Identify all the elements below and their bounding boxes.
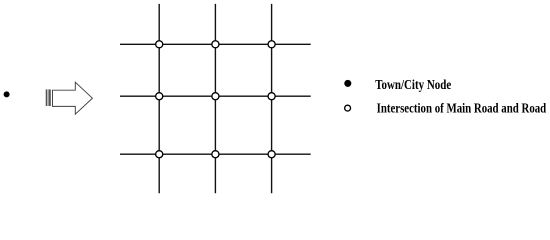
node: intersection row2 col2 xyxy=(212,93,219,100)
node: intersection row1 col3 xyxy=(268,41,275,48)
node: intersection row1 col1 xyxy=(156,41,163,48)
node: intersection row3 col2 xyxy=(212,151,219,158)
node: intersection row3 col3 xyxy=(268,151,275,158)
striped right arrow symbol xyxy=(46,82,93,114)
wire: vertical road 2 xyxy=(214,4,216,193)
node: intersection row3 col1 xyxy=(156,151,163,158)
svg-text:Intersection of Main Road and: Intersection of Main Road and Road xyxy=(377,100,547,115)
legend marker: filled town/city node dot xyxy=(344,80,351,87)
wire: horizontal main road 1 xyxy=(120,43,311,45)
wire: horizontal main road 3 xyxy=(120,153,311,155)
svg-text:Town/City Node: Town/City Node xyxy=(375,77,451,92)
node: intersection row2 col3 xyxy=(268,93,275,100)
node A: town/city node dot at far left xyxy=(4,91,10,97)
wire: vertical road 3 xyxy=(271,4,273,193)
wire: horizontal main road 2 xyxy=(120,95,311,97)
node: intersection row1 col2 xyxy=(212,41,219,48)
node: intersection row2 col1 xyxy=(156,93,163,100)
legend marker: open intersection circle xyxy=(345,105,351,111)
wire: vertical road 1 xyxy=(158,4,160,193)
